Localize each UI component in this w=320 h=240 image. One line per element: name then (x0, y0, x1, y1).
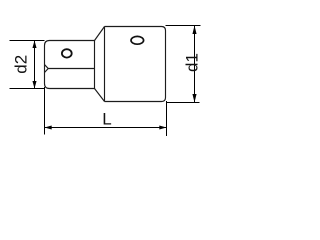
d2 arrow down (32, 81, 36, 89)
svg-text:L: L (102, 110, 111, 129)
d2 dimension line (34, 41, 36, 89)
L dimension line (45, 127, 167, 129)
svg-text:d2: d2 (12, 55, 31, 74)
d1 arrow down (192, 94, 196, 103)
shank middle ridge line (48, 68, 94, 70)
hole on body (131, 36, 144, 44)
body cylinder outline (105, 27, 166, 102)
ball detent hole on shank (62, 49, 72, 57)
shank body (square drive, side view) (45, 41, 95, 89)
body/cone junction vertical (104, 27, 106, 102)
d2 extension line top (10, 40, 45, 42)
cone bottom edge (95, 89, 105, 102)
d1 arrow up (192, 26, 196, 35)
L extension line left (44, 87, 46, 135)
d1 dimension line (194, 26, 196, 103)
L arrow right (159, 125, 166, 129)
L extension line right (166, 101, 168, 136)
d1 extension line top (166, 25, 201, 27)
shank end face vertical (junction shank/cone) (94, 41, 96, 89)
shank tip chamfer V (45, 65, 49, 73)
d2 arrow up (32, 41, 36, 49)
d1 extension line bottom (167, 102, 200, 104)
cone top edge (95, 27, 105, 41)
svg-text:d1: d1 (182, 53, 201, 72)
L arrow left (45, 125, 52, 129)
d2 extension line bottom (10, 88, 45, 90)
